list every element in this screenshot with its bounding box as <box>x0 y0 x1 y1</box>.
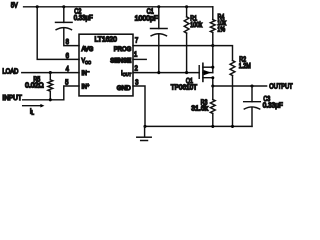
junction dot ground/GND pin <box>143 125 146 128</box>
junction dot drain/R3/OUTPUT <box>211 84 214 87</box>
Q1 drain stub <box>203 78 213 86</box>
junction dot OUTPUT/C3 <box>250 84 253 87</box>
resistor R3 31.6k <box>212 86 214 100</box>
junction dot INPUT/R5 <box>49 98 52 101</box>
svg-text:2: 2 <box>135 65 139 73</box>
svg-text:SENSE: SENSE <box>110 58 131 65</box>
wire: 5V top rail <box>24 6 213 8</box>
junction dot Q1 source/body <box>211 66 214 69</box>
svg-text:OUTPUT: OUTPUT <box>269 83 292 91</box>
svg-text:1%: 1% <box>217 26 225 34</box>
wire: PROG pin 7 to R4 node <box>133 45 213 47</box>
svg-text:PROG: PROG <box>114 46 132 53</box>
svg-text:INPUT: INPUT <box>2 95 21 102</box>
resistor R4 10k 1% <box>212 7 214 20</box>
Q1 body stub with arrow <box>203 72 213 74</box>
op-amp U1 LT1620 box <box>79 34 133 96</box>
current arrow IL <box>23 105 41 107</box>
transistor Q1 gate bar <box>198 66 200 79</box>
svg-text:LOAD: LOAD <box>2 68 18 76</box>
Q1 channel bar <box>202 63 204 81</box>
junction dot ground/R2 <box>231 125 234 128</box>
wire: IOUT pin 2 to Q1 gate <box>133 72 199 74</box>
svg-text:0.33µF: 0.33µF <box>263 102 283 109</box>
wire: SENSE pin 1 stub <box>133 58 146 60</box>
svg-text:8: 8 <box>66 39 70 47</box>
wire: INPUT to IN+ pin 5 <box>23 86 79 100</box>
svg-text:6: 6 <box>66 53 70 61</box>
svg-text:GND: GND <box>117 85 131 92</box>
svg-text:1.2M: 1.2M <box>239 63 251 71</box>
svg-text:IOUT: IOUT <box>121 71 131 78</box>
svg-text:1: 1 <box>134 51 138 59</box>
capacitor C3 <box>251 86 253 102</box>
junction dot IOUT/C1 <box>157 71 160 74</box>
capacitor C2 <box>63 7 65 23</box>
wire: R4/PROG node down to Q1 source <box>212 46 214 73</box>
Q1 source stub <box>203 66 213 68</box>
resistor R2 1.2M <box>230 61 235 76</box>
wire: PROG node over and down to R2 <box>213 46 233 61</box>
junction dot rail/C1 <box>157 5 160 8</box>
junction dot ground/R3 <box>211 125 214 128</box>
svg-text:100k: 100k <box>190 22 203 30</box>
junction dot IOUT/R1 <box>185 71 188 74</box>
wire: ground rail <box>145 125 252 127</box>
junction dot rail/VCC branch <box>36 5 39 8</box>
resistor R1 100k <box>186 7 188 17</box>
svg-text:31.6k: 31.6k <box>191 106 208 113</box>
junction dot rail/C2 <box>62 5 65 8</box>
svg-text:5V: 5V <box>11 2 18 10</box>
capacitor C1 <box>158 7 160 29</box>
svg-text:0.33µF: 0.33µF <box>74 14 93 21</box>
ground symbol <box>144 126 146 136</box>
svg-text:AVG: AVG <box>82 47 94 53</box>
wire: LOAD to IN- pin 4 <box>22 72 79 74</box>
svg-text:7: 7 <box>135 37 139 45</box>
svg-text:0.02Ω: 0.02Ω <box>25 82 44 89</box>
svg-text:1000pF: 1000pF <box>135 16 158 23</box>
wire: OUTPUT row <box>213 85 267 87</box>
wire: GND pin 3 down to ground <box>133 86 145 126</box>
wire: rail down to VCC pin 6 <box>37 7 79 60</box>
junction dot rail/R1 <box>185 5 188 8</box>
svg-text:VCC: VCC <box>82 58 92 65</box>
junction dot PROG/R4/R2 <box>211 44 214 47</box>
resistor R5 0.02ohm <box>49 73 51 80</box>
svg-text:LT1620: LT1620 <box>94 37 117 44</box>
junction dot LOAD/R5 <box>49 71 52 74</box>
svg-text:TP0610T: TP0610T <box>171 84 197 91</box>
svg-text:C1: C1 <box>147 8 155 16</box>
